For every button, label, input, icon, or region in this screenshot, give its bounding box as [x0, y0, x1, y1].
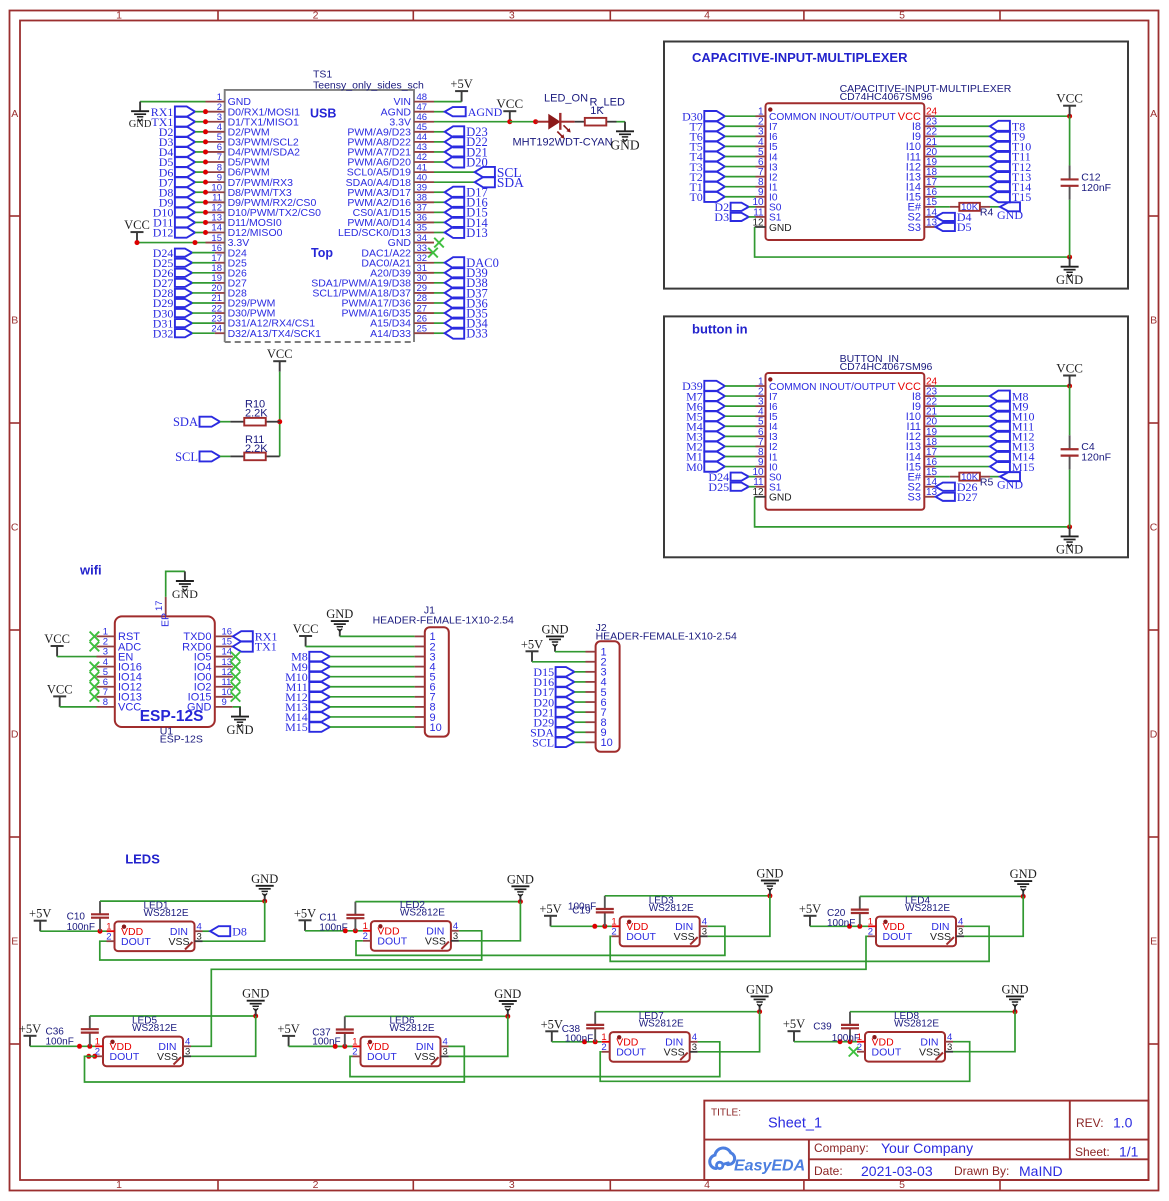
LED1 pin 2 DOUT — [106, 931, 151, 948]
svg-text:1K: 1K — [590, 105, 604, 117]
svg-text:S3: S3 — [908, 492, 921, 504]
junction TS1 pin 8 — [203, 170, 208, 175]
svg-text:3: 3 — [702, 927, 707, 938]
junction LED5 ground — [253, 1014, 258, 1019]
wire to D16 flag — [434, 201, 445, 203]
net flag T13 at CAPACITIVE-INPUT-MULTIPLEXER — [990, 170, 1031, 184]
capacitor C38 100nF — [586, 1012, 604, 1042]
wire E# to R4 — [935, 206, 950, 208]
LED7 pin 3 VSS — [664, 1042, 698, 1059]
svg-text:8: 8 — [103, 697, 108, 708]
TS1 pin 37 CS0/A1/D15 — [353, 203, 434, 219]
wire VCC vertical to R10/R11 — [279, 372, 281, 457]
resistor R5 10K — [950, 472, 990, 483]
no-connect X at U1 pin 11 — [231, 682, 241, 692]
TS1 pin 27 PWM/A16/D35 — [342, 303, 434, 319]
J2 pin 10 — [586, 737, 613, 749]
TS1 pin 28 PWM/A17/D36 — [342, 293, 434, 309]
wire VCC to capacitor — [1069, 386, 1071, 435]
svg-text:GND: GND — [1001, 982, 1028, 996]
no-connect X at U1 pin 7 — [90, 692, 100, 702]
junction LED5 DOUT — [86, 1054, 91, 1059]
net flag M12 at J1 pin 7 — [285, 690, 330, 704]
wire M4 to BUTTON_IN — [725, 425, 756, 427]
LED1 pin 1 VDD — [106, 921, 143, 938]
junction on LED4 VDD rail — [857, 924, 862, 929]
U1 pin 5 IO14 — [97, 667, 142, 684]
net flag D5 at TS1 pin 7 — [159, 155, 195, 169]
net flag T10 at CAPACITIVE-INPUT-MULTIPLEXER — [990, 140, 1031, 154]
junction on LED2 VDD rail — [343, 928, 348, 933]
wire LED7 VSS to ground — [698, 1012, 760, 1052]
power flag VCC at U1 EN — [44, 632, 70, 657]
BUTTON_IN pin 13 S3 — [908, 487, 938, 503]
wire to D20 flag — [434, 161, 445, 163]
wire to D21 flag — [434, 151, 445, 153]
wire to D13 flag — [434, 231, 445, 233]
TS1 pin 13 D11/MOSI0 — [206, 213, 282, 229]
wire LED6 ground rail — [345, 1015, 508, 1017]
wire +5V to LED8 VDD — [794, 1041, 857, 1043]
svg-text:D32: D32 — [153, 326, 174, 340]
junction on LED8 VDD rail — [848, 1039, 853, 1044]
net flag D16 — [445, 196, 488, 210]
svg-text:2: 2 — [363, 931, 368, 942]
svg-text:Teensy_only_sides_sch: Teensy_only_sides_sch — [313, 80, 424, 92]
wire BUTTON_IN to M14 — [935, 455, 990, 457]
wire ground to J2 pin1 — [555, 651, 586, 653]
wire D29 to pin — [192, 302, 215, 304]
net flag M9 at BUTTON_IN — [990, 399, 1029, 413]
CAPACITIVE-INPUT-MULTIPLEXER pin 15 E# — [908, 197, 938, 213]
CAPACITIVE-INPUT-MULTIPLEXER pin 2 I7 — [756, 117, 778, 133]
net flag D29 at J2 pin 8 — [533, 715, 574, 729]
frame row letters — [11, 108, 1158, 948]
power flag +5V at LED1 — [29, 907, 51, 932]
LED2 pin 1 VDD — [363, 921, 400, 938]
svg-text:100nF: 100nF — [46, 1037, 74, 1048]
LED8 polarity mark — [936, 1053, 944, 1061]
TS1 pin 33 DAC1/A22 — [361, 243, 434, 259]
IC BUTTON_IN CD74HC4067SM96 body — [766, 373, 925, 510]
wire LED7 ground rail — [595, 1011, 759, 1013]
net flag AGND — [445, 105, 503, 119]
net flag D15 at J2 pin 3 — [533, 665, 574, 679]
svg-text:GND: GND — [997, 478, 1023, 492]
wire +5V to LED7 VDD — [552, 1041, 602, 1043]
CAPACITIVE-INPUT-MULTIPLEXER pin 22 I9 — [912, 127, 938, 143]
wire LED5 VSS to ground — [191, 1016, 256, 1056]
svg-text:GND: GND — [1010, 867, 1037, 881]
wire U1 GND pin — [233, 707, 240, 715]
net flag D5 at CAPACITIVE-INPUT-MULTIPLEXER — [936, 220, 972, 234]
net flag T8 at CAPACITIVE-INPUT-MULTIPLEXER — [990, 119, 1025, 133]
wire LED5 ground rail — [90, 1015, 256, 1017]
TS1 pin 35 LED/SCK0/D13 — [338, 223, 434, 239]
J2 pin 5 — [586, 687, 607, 699]
net flag D20 — [445, 155, 488, 169]
wire CAPACITIVE-INPUT-MULTIPLEXER GND to ground rail — [755, 227, 1070, 257]
wire to D34 flag — [434, 322, 445, 324]
wire VCC to capacitor — [1069, 116, 1071, 165]
wire SDA to J2 — [574, 731, 585, 733]
CAPACITIVE-INPUT-MULTIPLEXER pin 17 I14 — [906, 177, 938, 193]
svg-text:DOUT: DOUT — [377, 936, 407, 948]
svg-text:SCL: SCL — [532, 736, 554, 750]
net flag M4 at BUTTON_IN pin 5 — [686, 419, 725, 433]
svg-text:WS2812E: WS2812E — [905, 903, 950, 914]
J2 pin 9 — [586, 727, 607, 739]
wire LED8 ground rail — [850, 1011, 1015, 1013]
wire D16 to J2 — [574, 681, 585, 683]
svg-text:17: 17 — [154, 600, 165, 611]
wire D9 to pin — [195, 201, 205, 203]
power flag +5V at LED3 — [539, 902, 561, 927]
svg-text:12: 12 — [752, 217, 764, 228]
BUTTON_IN pin 22 I9 — [912, 397, 938, 413]
svg-text:HEADER-FEMALE-1X10-2.54: HEADER-FEMALE-1X10-2.54 — [596, 630, 737, 642]
J2 pin 3 — [586, 667, 607, 679]
wire VCC to LED anode — [510, 121, 536, 123]
net flag D2 at CAPACITIVE-INPUT-MULTIPLEXER pin 10 — [714, 200, 748, 214]
no-connect X at U1 pin 4 — [90, 662, 100, 672]
LED5 pin 1 VDD — [95, 1037, 132, 1054]
LED6 pin 1 VDD — [352, 1037, 389, 1054]
ground at LED6 — [494, 987, 521, 1016]
frame column numbers — [116, 10, 905, 1191]
net flag M15 at BUTTON_IN — [990, 460, 1035, 474]
wire CAPACITIVE-INPUT-MULTIPLEXER to T8 — [935, 125, 990, 127]
svg-text:Sheet:: Sheet: — [1075, 1145, 1110, 1159]
wire D31 to pin — [192, 322, 215, 324]
LED driver LED7 WS2812E body — [610, 1032, 690, 1062]
wire LED2 DOUT to LED3 DIN — [356, 926, 725, 955]
TS1 pin 8 D6/PWM — [206, 162, 270, 178]
frame row ticks — [10, 216, 1159, 1044]
resistor R11 — [230, 453, 279, 461]
J1 pin 2 — [415, 641, 436, 653]
net flag D2 at TS1 pin 4 — [159, 125, 195, 139]
wire M0 to BUTTON_IN — [725, 466, 756, 468]
svg-text:GND: GND — [326, 607, 353, 621]
resistor R4 10K — [950, 202, 990, 213]
svg-text:GND: GND — [1056, 543, 1083, 557]
wire M15 to J1 — [330, 726, 415, 728]
wire LED1 DOUT to LED2 DIN — [100, 931, 482, 960]
svg-text:D5: D5 — [957, 220, 972, 234]
CAPACITIVE-INPUT-MULTIPLEXER pin 1 COMMON INOUT/OUTPUT — [756, 107, 896, 123]
svg-text:EasyEDA: EasyEDA — [734, 1158, 805, 1175]
TS1 pin 22 D30/PWM — [211, 303, 275, 319]
TS1 pin 43 PWM/A7/D21 — [347, 142, 434, 158]
net flag RX1 at U1 TXD0 — [233, 630, 278, 644]
svg-text:+5V: +5V — [783, 1017, 805, 1031]
junction on LED8 VDD rail — [838, 1039, 843, 1044]
no-connect X at U1 pin 10 — [231, 692, 241, 702]
net flag M13 at BUTTON_IN — [990, 440, 1035, 454]
LED1 pin 4 DIN — [170, 921, 203, 938]
wire +5V stem — [461, 95, 463, 102]
no-connect X at U1 pin 2 — [90, 642, 100, 652]
net flag D26 at BUTTON_IN — [936, 480, 978, 494]
TS1 pin 5 D3/PWM/SCL2 — [206, 132, 299, 148]
CAPACITIVE-INPUT-MULTIPLEXER pin 10 S0 — [752, 197, 781, 213]
net flag TX1 at TS1 pin 3 — [151, 115, 195, 129]
LED3 pin 2 DOUT — [611, 927, 656, 944]
net flag D24 at BUTTON_IN pin 10 — [708, 470, 748, 484]
svg-text:VCC: VCC — [124, 218, 150, 232]
svg-text:2.2K: 2.2K — [245, 408, 268, 420]
BUTTON_IN pin 15 E# — [908, 467, 938, 483]
svg-text:DOUT: DOUT — [883, 931, 913, 943]
wire D12 to pin — [195, 232, 205, 234]
svg-text:VSS: VSS — [414, 1051, 435, 1063]
svg-text:CD74HC4067SM96: CD74HC4067SM96 — [840, 361, 933, 373]
TS1 pin 45 PWM/A9/D23 — [347, 122, 434, 138]
net flag D33 — [445, 327, 488, 341]
wire to D35 flag — [434, 312, 445, 314]
svg-text:VCC: VCC — [44, 632, 70, 646]
junction LED5 DOUT 2 — [92, 1054, 97, 1059]
wire M13 to J1 — [330, 706, 415, 708]
power flag +5V at LED4 — [799, 902, 821, 927]
svg-text:+5V: +5V — [29, 907, 51, 921]
LED5 pin 4 DIN — [158, 1037, 191, 1054]
title block lines — [704, 1101, 1148, 1180]
wire D4 to pin — [195, 151, 205, 153]
LED6 pin 3 VSS — [414, 1047, 448, 1064]
svg-text:100nF: 100nF — [568, 902, 596, 913]
LED7 pin 2 DOUT — [601, 1042, 646, 1059]
svg-text:VSS: VSS — [425, 936, 446, 948]
BUTTON_IN pin 6 I3 — [756, 427, 778, 443]
BUTTON_IN pin 3 I6 — [756, 397, 778, 413]
junction on LED1 VDD rail — [98, 929, 103, 934]
wire VCC to J1 pin2 — [306, 646, 415, 648]
wire to D17 flag — [434, 191, 445, 193]
resistor R10 — [230, 418, 279, 426]
wire LED1 DIN to D8 flag — [203, 930, 211, 932]
LED3 polarity mark — [690, 937, 698, 945]
svg-text:WS2812E: WS2812E — [132, 1023, 177, 1034]
TS1 pin 34 GND — [388, 233, 434, 249]
power flag +5V at TS1 pin 48 — [450, 77, 472, 102]
BUTTON_IN pin 18 I13 — [906, 437, 938, 453]
BUTTON_IN pin 1 dot — [768, 377, 772, 381]
svg-text:WS2812E: WS2812E — [639, 1019, 684, 1030]
net flag T14 at CAPACITIVE-INPUT-MULTIPLEXER — [990, 180, 1031, 194]
LED5 pin 2 DOUT — [95, 1047, 140, 1064]
ground at U1 pin 9 — [226, 707, 253, 737]
J1 pin 4 — [415, 661, 436, 673]
wire LED4 ground rail — [860, 895, 1023, 897]
junction ground rail — [1067, 524, 1072, 529]
LED7 pin 1 VDD — [601, 1032, 638, 1049]
svg-text:R5: R5 — [980, 476, 994, 488]
svg-text:DOUT: DOUT — [110, 1051, 140, 1063]
ESP module U1 body — [115, 616, 215, 727]
junction TS1 pin 5 — [203, 139, 208, 144]
ground at LED circuit — [610, 122, 639, 153]
U1 pin 15 RXD0 — [182, 637, 233, 654]
svg-text:SCL: SCL — [175, 450, 198, 464]
J2 pin 8 — [586, 717, 607, 729]
U1 pin 6 IO12 — [97, 677, 142, 694]
svg-text:C10: C10 — [67, 912, 86, 923]
wire to D36 flag — [434, 302, 445, 304]
net flag M11 at J1 pin 6 — [286, 680, 330, 694]
wire D25 to pin — [192, 262, 215, 264]
net flag D39 at BUTTON_IN pin 1 — [682, 379, 725, 393]
wire +5V to LED6 VDD — [289, 1045, 353, 1047]
wire LED2 ground rail — [355, 901, 520, 903]
svg-text:wifi: wifi — [79, 563, 102, 578]
net flag M10 at J1 pin 5 — [285, 670, 330, 684]
capacitor C36 100nF — [81, 1016, 99, 1046]
wire VCC to U1 pin8 — [60, 706, 97, 708]
svg-text:COMMON INOUT/OUTPUT: COMMON INOUT/OUTPUT — [769, 112, 896, 123]
junction on LED5 VDD rail — [87, 1044, 92, 1049]
svg-text:9: 9 — [222, 697, 227, 708]
wire CAPACITIVE-INPUT-MULTIPLEXER to T9 — [935, 135, 990, 137]
junction TS1 pin 10 — [203, 190, 208, 195]
svg-text:Your Company: Your Company — [881, 1140, 973, 1156]
net flag D14 — [445, 216, 489, 230]
svg-text:GND: GND — [129, 119, 152, 130]
svg-text:+5V: +5V — [450, 77, 472, 91]
LED driver LED5 WS2812E body — [103, 1037, 183, 1067]
wire BUTTON_IN to M10 — [935, 415, 990, 417]
wire M2 to BUTTON_IN — [725, 445, 756, 447]
capacitor C4 120nF — [1061, 435, 1079, 469]
ground at U1 EP — [172, 571, 198, 600]
wire ground to J1 pin1 — [340, 635, 415, 637]
wire D7 to pin — [195, 181, 205, 183]
junction LED8 ground — [1013, 1009, 1018, 1014]
junction on LED7 VDD rail — [593, 1039, 598, 1044]
power flag VCC at CAPACITIVE-INPUT-MULTIPLEXER — [1056, 91, 1083, 117]
svg-text:3: 3 — [443, 1047, 448, 1058]
net flag D11 at TS1 pin 13 — [153, 216, 195, 230]
wire BUTTON_IN to M12 — [935, 435, 990, 437]
wire LED4 VSS to ground — [964, 896, 1023, 936]
wire CAPACITIVE-INPUT-MULTIPLEXER to T15 — [935, 196, 990, 198]
svg-text:TX1: TX1 — [255, 640, 277, 654]
TS1 pin 15 3.3V — [206, 233, 250, 249]
TS1 pin 19 D27 — [211, 273, 247, 289]
net flag M1 at BUTTON_IN pin 8 — [686, 450, 725, 464]
J1 pin 10 — [415, 722, 442, 734]
J1 pin 1 — [415, 631, 436, 643]
TS1 pin 17 D25 — [211, 253, 247, 269]
svg-text:VSS: VSS — [930, 931, 951, 943]
net flag M0 at BUTTON_IN pin 9 — [686, 460, 725, 474]
svg-text:Company:: Company: — [814, 1141, 869, 1155]
LED3 pin 4 DIN — [675, 917, 708, 934]
no-connect X at U1 pin 12 — [231, 672, 241, 682]
CAPACITIVE-INPUT-MULTIPLEXER pin 11 S1 — [753, 207, 782, 223]
wire to AGND flag — [434, 111, 445, 113]
ground at LED7 — [746, 982, 773, 1011]
svg-text:D32/A13/TX4/SCK1: D32/A13/TX4/SCK1 — [228, 328, 322, 340]
svg-text:3: 3 — [185, 1047, 190, 1058]
net flag D9 at TS1 pin 11 — [159, 196, 195, 210]
svg-text:D27: D27 — [957, 490, 978, 504]
wire +5V to LED4 VDD — [810, 925, 868, 927]
wire D17 to J2 — [574, 691, 585, 693]
net flag M6 at BUTTON_IN pin 3 — [686, 399, 725, 413]
wire +5V to LED3 VDD — [551, 925, 612, 927]
net flag D35 — [445, 306, 488, 320]
wire M9 to J1 — [330, 666, 415, 668]
wire D5 to pin — [195, 161, 205, 163]
capacitor C37 100nF — [336, 1016, 354, 1046]
ground at LED2 — [507, 872, 534, 901]
wire TS1 pin1 to ground — [140, 101, 205, 103]
wire to D14 flag — [434, 221, 445, 223]
svg-text:B: B — [11, 314, 18, 326]
LED driver LED4 WS2812E body — [876, 917, 956, 947]
U1 pin 11 IO2 — [194, 677, 233, 694]
svg-text:HEADER-FEMALE-1X10-2.54: HEADER-FEMALE-1X10-2.54 — [373, 615, 514, 627]
wire D6 to pin — [195, 171, 205, 173]
CAPACITIVE-INPUT-MULTIPLEXER pin 8 I1 — [756, 177, 778, 193]
wire D21 to J2 — [574, 711, 585, 713]
LED2 pin 3 VSS — [425, 931, 459, 948]
no-connect X at U1 pin 14 — [231, 652, 241, 662]
TS1 pin 36 PWM/A0/D14 — [347, 213, 434, 229]
svg-text:GND: GND — [997, 208, 1023, 222]
CAPACITIVE-INPUT-MULTIPLEXER pin 1 dot — [768, 107, 772, 111]
svg-text:100nF: 100nF — [67, 922, 95, 933]
wire to D22 flag — [434, 141, 445, 143]
no-connect X at U1 pin 13 — [231, 662, 241, 672]
no-connect X at U1 pin 6 — [90, 682, 100, 692]
wire BUTTON_IN to M9 — [935, 405, 990, 407]
LED8 pin 4 DIN — [920, 1032, 953, 1049]
junction on LED3 VDD rail — [602, 924, 607, 929]
wire D27 to pin — [192, 282, 215, 284]
ground at J1 pin 1 — [326, 607, 353, 636]
junction on LED7 VDD rail — [582, 1039, 587, 1044]
LED driver LED1 WS2812E body — [115, 922, 195, 952]
svg-text:2: 2 — [313, 10, 319, 22]
svg-text:C: C — [1150, 521, 1158, 533]
TS1 pin 7 D5/PWM — [206, 152, 270, 168]
wire to D38 flag — [434, 282, 445, 284]
CAPACITIVE-INPUT-MULTIPLEXER pin 7 I2 — [756, 167, 778, 183]
no-connect X at U1 pin 5 — [90, 672, 100, 682]
TS1 pin 31 A20/D39 — [370, 263, 434, 279]
net flag D3 at CAPACITIVE-INPUT-MULTIPLEXER pin 11 — [714, 210, 748, 224]
svg-text:T0: T0 — [689, 190, 702, 204]
CAPACITIVE-INPUT-MULTIPLEXER pin 6 I3 — [756, 157, 778, 173]
wire T4 to CAPACITIVE-INPUT-MULTIPLEXER — [725, 155, 756, 157]
svg-text:GND: GND — [187, 702, 212, 714]
svg-text:GND: GND — [769, 223, 792, 234]
svg-text:+5V: +5V — [294, 906, 316, 920]
frame column ticks — [218, 11, 1000, 1191]
junction on LED3 VDD rail — [592, 924, 597, 929]
net flag T1 at CAPACITIVE-INPUT-MULTIPLEXER pin 8 — [689, 180, 724, 194]
net flag D32 at TS1 pin 24 — [153, 326, 192, 340]
junction R10/VCC — [277, 419, 282, 424]
no-connect X at TS1 pin 33 — [428, 248, 438, 258]
junction on LED6 VDD rail — [333, 1044, 338, 1049]
J1 pin 3 — [415, 651, 436, 663]
wire T3 to CAPACITIVE-INPUT-MULTIPLEXER — [725, 166, 756, 168]
LED4 polarity mark — [947, 937, 955, 945]
